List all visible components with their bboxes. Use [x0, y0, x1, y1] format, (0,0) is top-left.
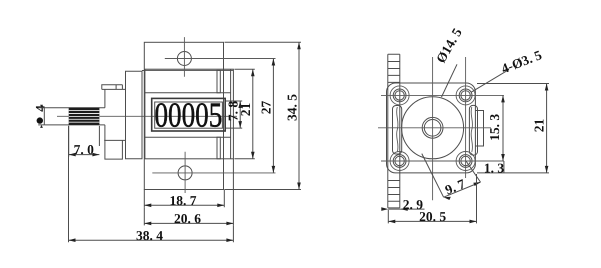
display bezel outer — [152, 98, 226, 131]
centerline top holes — [381, 94, 504, 96]
dimension phi4 ticks — [38, 108, 44, 125]
boss arc top-left — [390, 86, 409, 105]
flange plate front — [144, 42, 223, 189]
step plate A2 top — [102, 88, 126, 90]
body top second line — [145, 69, 234, 71]
svg-text:15. 3: 15. 3 — [487, 114, 502, 141]
body case — [145, 69, 234, 159]
dimension 20.5 — [388, 174, 476, 224]
mounting plate — [387, 83, 476, 173]
dimension phi4 label — [33, 105, 48, 124]
right clip — [469, 105, 477, 155]
block B — [126, 71, 143, 158]
svg-text:1. 3: 1. 3 — [484, 161, 505, 176]
big circle — [402, 97, 464, 159]
sliver C — [142, 70, 144, 72]
clip top — [217, 70, 220, 92]
centerline vertical center — [432, 57, 434, 200]
label phi14.5 with leader — [433, 25, 465, 97]
step plate A1 top — [102, 85, 123, 90]
dimension 20.6 — [144, 159, 233, 226]
centerline bottom holes — [381, 160, 504, 162]
bottom ear hole crosshair — [152, 152, 275, 193]
hole bottom-right — [459, 155, 472, 168]
body seam lower — [145, 136, 231, 138]
svg-text:00005: 00005 — [154, 96, 222, 135]
svg-text:20. 6: 20. 6 — [174, 211, 201, 226]
dimension phi4 arrows — [40, 105, 43, 128]
svg-text:7. 0: 7. 0 — [74, 142, 95, 157]
hole top-right — [459, 89, 472, 102]
boss arc top-right — [456, 86, 475, 105]
hole bottom-left — [393, 155, 406, 168]
dimension 2.9 — [381, 197, 424, 212]
label 4-phi3.5 with leader — [471, 47, 544, 92]
hub ring — [422, 117, 443, 138]
centerline main axis — [57, 115, 237, 117]
hole top-left — [393, 89, 406, 102]
body seam upper — [145, 92, 231, 94]
dimension 18.7 — [144, 190, 224, 209]
knurl wheel side ladder — [388, 54, 400, 208]
display bezel inner — [155, 102, 223, 128]
left clip — [393, 106, 402, 155]
dimension 1.3 — [484, 161, 505, 176]
svg-text:21: 21 — [238, 103, 253, 117]
bottom block — [105, 140, 123, 159]
knurled wheel section — [69, 108, 100, 125]
dimension 38.4 — [69, 126, 234, 243]
svg-text:21: 21 — [532, 119, 547, 133]
dimension 7.8 — [226, 101, 243, 128]
boss arc bottom-right — [456, 152, 475, 171]
top ear hole — [177, 52, 191, 66]
svg-text:38. 4: 38. 4 — [136, 228, 163, 243]
boss arc bottom-left — [390, 152, 409, 171]
step line bottom — [104, 139, 125, 141]
dimension 9.7 diagonal — [422, 154, 481, 200]
bottom ear hole — [178, 166, 192, 180]
dimension 7.0 — [69, 126, 100, 157]
step tab top — [116, 85, 122, 90]
svg-text:27: 27 — [259, 101, 274, 115]
dimension 34.5 — [225, 42, 302, 189]
step plate A left edge — [104, 89, 106, 140]
svg-text:18. 7: 18. 7 — [170, 193, 197, 208]
top ear hole crosshair — [165, 37, 276, 77]
shaft body — [44, 108, 105, 125]
centerline horizontal main right view — [378, 127, 491, 129]
right protruding tab — [475, 111, 483, 147]
dimension 15.3 — [487, 95, 505, 161]
centerline vertical right holes — [465, 57, 467, 178]
clip bottom — [217, 137, 220, 159]
svg-text:20. 5: 20. 5 — [419, 209, 446, 224]
body right seam — [230, 69, 232, 159]
svg-text:4: 4 — [33, 105, 48, 112]
dimension 21 middle — [234, 69, 254, 159]
dimension 21 right — [477, 84, 549, 173]
svg-text:34. 5: 34. 5 — [284, 94, 299, 121]
dimension 27 — [259, 59, 276, 173]
